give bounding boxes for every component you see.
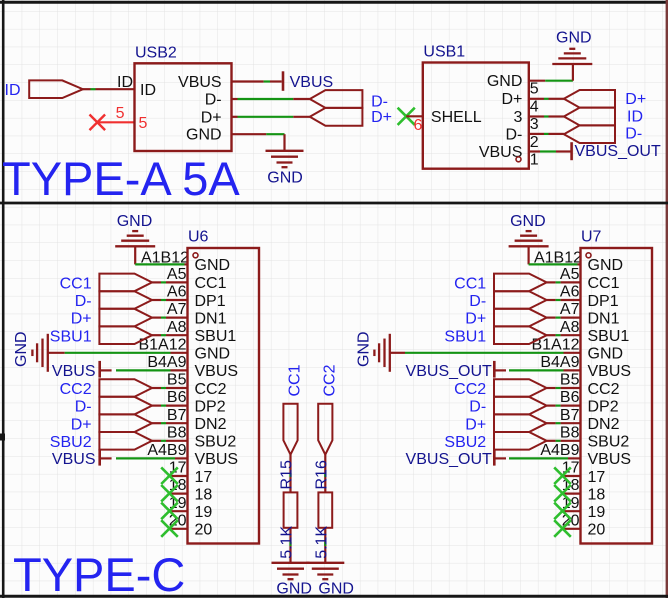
ground label GND (left U6) bbox=[13, 331, 30, 367]
net label ID bbox=[117, 74, 133, 91]
port label CC2 (U7 B-row) bbox=[454, 381, 486, 398]
port label SBU1 (U6 A-row) bbox=[50, 328, 92, 345]
svg-text:VBUS: VBUS bbox=[195, 363, 239, 380]
port D+ (U7 A-row) bbox=[494, 309, 547, 327]
pin number 5 (outside USB2) bbox=[116, 105, 125, 122]
U6 pin 18 stub bbox=[169, 493, 188, 495]
svg-text:A8: A8 bbox=[167, 319, 187, 336]
svg-text:VBUS: VBUS bbox=[588, 451, 632, 468]
svg-text:ID: ID bbox=[140, 82, 156, 99]
U7 pin name 19 bbox=[588, 504, 606, 521]
svg-text:SBU2: SBU2 bbox=[444, 434, 486, 451]
U7 pin number 17 bbox=[562, 460, 580, 477]
wire port to U6 A6 bbox=[152, 299, 188, 301]
wire GND to U6 pin A1B12 bbox=[135, 247, 187, 264]
svg-text:D+: D+ bbox=[371, 109, 392, 126]
wire U7 GND B1A12 bbox=[390, 352, 581, 354]
svg-text:TYPE-C: TYPE-C bbox=[13, 548, 185, 598]
U6 pin name DN2 bbox=[195, 416, 227, 433]
wire R16 to ground bbox=[324, 528, 326, 563]
U6 pin number A4B9 bbox=[147, 442, 186, 459]
wire USB1 ID pin3 bbox=[529, 115, 564, 117]
svg-text:DN1: DN1 bbox=[588, 310, 620, 327]
ground label GND (R15) bbox=[276, 581, 312, 598]
svg-text:A6: A6 bbox=[167, 284, 187, 301]
svg-text:A5: A5 bbox=[560, 266, 580, 283]
svg-text:GND: GND bbox=[510, 213, 546, 230]
port label D+ (U7 A-row) bbox=[465, 311, 486, 328]
svg-text:1: 1 bbox=[530, 152, 539, 169]
U7 pin number 20 bbox=[562, 512, 580, 529]
svg-text:SBU1: SBU1 bbox=[588, 328, 630, 345]
U7 pin name 17 bbox=[588, 469, 606, 486]
USB1 pin name VBUS bbox=[479, 144, 523, 161]
power label VBUS_OUT (U7 A4B9) bbox=[406, 451, 492, 468]
USB1 shell cross pin6 bbox=[398, 108, 415, 125]
U6 pin name 18 bbox=[195, 486, 213, 503]
svg-text:U7: U7 bbox=[581, 228, 602, 245]
svg-text:D-: D- bbox=[625, 126, 642, 143]
wire port to U6 B7 bbox=[152, 422, 188, 424]
svg-text:GND: GND bbox=[588, 346, 624, 363]
svg-text:A1B12: A1B12 bbox=[534, 249, 582, 266]
svg-text:A5: A5 bbox=[167, 266, 187, 283]
U7 pin name VBUS bbox=[588, 451, 632, 468]
power label VBUS (U6 B4A9) bbox=[52, 363, 96, 380]
svg-text:D-: D- bbox=[75, 399, 92, 416]
port SBU2 (U6 B-row) bbox=[99, 432, 152, 450]
svg-text:ID: ID bbox=[117, 74, 133, 91]
port label CC1 (U7 A-row) bbox=[454, 276, 486, 293]
svg-text:VBUS_OUT: VBUS_OUT bbox=[406, 363, 492, 380]
wire U6 GND B1A12 bbox=[48, 352, 188, 354]
U6 pin name CC1 bbox=[195, 275, 227, 292]
U7 pin name VBUS bbox=[588, 363, 632, 380]
wire port to U6 A5 bbox=[152, 281, 188, 283]
wire R15 to ground bbox=[289, 528, 291, 563]
svg-text:USB2: USB2 bbox=[135, 45, 177, 62]
svg-text:A7: A7 bbox=[167, 301, 187, 318]
USB1 pin name 3 bbox=[513, 109, 522, 126]
svg-text:R16: R16 bbox=[313, 460, 330, 489]
svg-text:SBU1: SBU1 bbox=[50, 328, 92, 345]
value 5.1K (R15) bbox=[279, 526, 296, 559]
U6 pin number A8 bbox=[167, 319, 187, 336]
port D- (USB1) bbox=[564, 125, 615, 143]
USB1 pin number 4 bbox=[530, 98, 539, 115]
ground symbol left of U7 (rotated) bbox=[374, 334, 389, 372]
power label VBUS bbox=[290, 74, 334, 91]
U6 pin name DP2 bbox=[195, 398, 226, 415]
ground label GND (USB2) bbox=[267, 169, 303, 186]
designator R16 bbox=[313, 460, 330, 489]
U7 pin name DP2 bbox=[588, 398, 619, 415]
U7 pin number B6 bbox=[560, 389, 580, 406]
svg-text:5.1K: 5.1K bbox=[313, 526, 330, 559]
svg-text:19: 19 bbox=[588, 504, 606, 521]
USB2 pin name VBUS bbox=[178, 74, 222, 91]
port label D+ (USB2) bbox=[371, 109, 392, 126]
wire ID port to USB2 bbox=[83, 88, 135, 90]
wire port to U7 B6 bbox=[547, 405, 581, 407]
connector U7 box bbox=[581, 248, 653, 544]
svg-text:TYPE-A 5A: TYPE-A 5A bbox=[2, 152, 240, 205]
svg-text:5.1K: 5.1K bbox=[279, 526, 296, 559]
svg-text:D-: D- bbox=[75, 293, 92, 310]
wire port to U6 A8 bbox=[152, 334, 188, 336]
U6 pin name DN1 bbox=[195, 310, 227, 327]
no-ERC cross U7 pin 20 bbox=[554, 520, 571, 537]
wire port to U7 A5 bbox=[547, 281, 581, 283]
USB2 pin name GND bbox=[186, 127, 222, 144]
port label ID (USB1) bbox=[627, 109, 643, 126]
svg-text:2: 2 bbox=[530, 134, 539, 151]
port D+ (USB2) bbox=[310, 108, 363, 126]
USB2 pin name D+ bbox=[201, 109, 222, 126]
svg-text:18: 18 bbox=[588, 486, 606, 503]
value 5.1K (R16) bbox=[313, 526, 330, 559]
U7 pin name CC1 bbox=[588, 275, 620, 292]
svg-text:GND: GND bbox=[556, 29, 592, 46]
port label D- (USB1) bbox=[625, 126, 642, 143]
U7 pin name DP1 bbox=[588, 293, 619, 310]
svg-text:20: 20 bbox=[588, 522, 606, 539]
U6 pin name GND bbox=[195, 257, 231, 274]
port label ID bbox=[5, 82, 21, 99]
USB1 pin name D- bbox=[506, 127, 523, 144]
ground symbol above USB1 (inverted) bbox=[552, 49, 592, 64]
U6 pin number A5 bbox=[167, 266, 187, 283]
U7 pin name 20 bbox=[588, 522, 606, 539]
ground label GND (R16) bbox=[318, 581, 354, 598]
wire port to U6 B8 bbox=[152, 440, 188, 442]
svg-text:5: 5 bbox=[116, 105, 125, 122]
no-ERC cross U6 pin 20 bbox=[161, 520, 178, 537]
wire U6 VBUS B4A9 bbox=[101, 369, 188, 371]
pin 6 wire USB1 bbox=[406, 115, 423, 117]
pin name 5 (inside USB2) bbox=[139, 115, 148, 132]
wire port to U6 B5 bbox=[152, 387, 188, 389]
U7 pin name DN1 bbox=[588, 310, 620, 327]
wire USB1 D+ pin4 bbox=[529, 98, 564, 100]
U6 pin name 19 bbox=[195, 504, 213, 521]
svg-text:VBUS: VBUS bbox=[290, 74, 334, 91]
wire port to U7 A8 bbox=[547, 334, 581, 336]
svg-text:VBUS: VBUS bbox=[52, 451, 96, 468]
port CC1 (vertical) bbox=[283, 404, 297, 455]
port CC2 (vertical) bbox=[318, 404, 332, 455]
svg-text:VBUS: VBUS bbox=[195, 451, 239, 468]
svg-text:GND: GND bbox=[487, 73, 523, 90]
U6 pin name VBUS bbox=[195, 363, 239, 380]
power port VBUS_OUT (bar) bbox=[570, 142, 573, 160]
power port bar VBUS (U6 B4A9) bbox=[98, 361, 101, 378]
svg-text:CC1: CC1 bbox=[588, 275, 620, 292]
svg-text:17: 17 bbox=[588, 469, 606, 486]
svg-text:A4B9: A4B9 bbox=[147, 442, 186, 459]
port label D- (U6 B-row) bbox=[75, 399, 92, 416]
svg-text:DN1: DN1 bbox=[195, 310, 227, 327]
port label SBU2 (U6 B-row) bbox=[50, 434, 92, 451]
svg-text:GND: GND bbox=[186, 127, 222, 144]
no-ERC cross U7 pin 17 bbox=[554, 467, 571, 484]
svg-text:SBU2: SBU2 bbox=[195, 434, 237, 451]
svg-text:GND: GND bbox=[318, 581, 354, 598]
U6 pin 17 stub bbox=[169, 475, 188, 477]
USB2 pin name ID bbox=[140, 82, 156, 99]
ground symbol left of U6 (rotated) bbox=[32, 334, 47, 372]
ground label GND (top U7) bbox=[510, 213, 546, 230]
svg-text:VBUS_OUT: VBUS_OUT bbox=[406, 451, 492, 468]
svg-text:A6: A6 bbox=[560, 284, 580, 301]
power label VBUS_OUT bbox=[575, 143, 661, 160]
svg-text:CC1: CC1 bbox=[454, 276, 486, 293]
svg-text:20: 20 bbox=[195, 522, 213, 539]
svg-text:CC1: CC1 bbox=[287, 364, 304, 396]
U7 pin number A7 bbox=[560, 301, 580, 318]
svg-text:GND: GND bbox=[195, 257, 231, 274]
svg-text:CC1: CC1 bbox=[60, 276, 92, 293]
ground label GND (top U6) bbox=[117, 213, 153, 230]
svg-text:B7: B7 bbox=[167, 407, 187, 424]
port label SBU1 (U7 A-row) bbox=[444, 328, 486, 345]
U7 pin 19 stub bbox=[562, 510, 581, 512]
USB1 pin name SHELL bbox=[431, 109, 482, 126]
svg-text:D+: D+ bbox=[465, 416, 486, 433]
svg-text:B8: B8 bbox=[167, 424, 187, 441]
wire U6 VBUS A4B9 bbox=[101, 457, 188, 459]
svg-text:B7: B7 bbox=[560, 407, 580, 424]
U6 pin number A6 bbox=[167, 284, 187, 301]
ground symbol above U7 (inverted) bbox=[509, 231, 549, 246]
pin 5 wire USB2 bbox=[97, 121, 134, 123]
wire USB1 D- pin2 bbox=[529, 133, 564, 135]
svg-text:CC2: CC2 bbox=[454, 381, 486, 398]
port ID (USB1) bbox=[564, 108, 615, 126]
ground label GND (left U7) bbox=[355, 331, 372, 367]
U7 pin name 18 bbox=[588, 486, 606, 503]
port label D+ (U6 B-row) bbox=[71, 416, 92, 433]
U7 pin number B7 bbox=[560, 407, 580, 424]
U7 pin number A6 bbox=[560, 284, 580, 301]
svg-text:CC2: CC2 bbox=[321, 364, 338, 396]
power label VBUS (U6 A4B9) bbox=[52, 451, 96, 468]
port label D- (USB2) bbox=[371, 93, 388, 110]
svg-text:GND: GND bbox=[276, 581, 312, 598]
svg-text:DP1: DP1 bbox=[195, 293, 226, 310]
no-ERC cross U6 pin 19 bbox=[161, 503, 178, 520]
port label CC2 (U6 B-row) bbox=[60, 381, 92, 398]
port label D- (U6 A-row) bbox=[75, 293, 92, 310]
U6 pin name SBU1 bbox=[195, 328, 237, 345]
no-ERC cross U6 pin 18 bbox=[161, 485, 178, 502]
U7 pin number B8 bbox=[560, 424, 580, 441]
port label D+ (U6 A-row) bbox=[71, 311, 92, 328]
port CC2 (U7 B-row) bbox=[494, 379, 547, 397]
svg-text:D-: D- bbox=[205, 92, 222, 109]
port ID (left) bbox=[29, 80, 83, 98]
section title TYPE-C bbox=[13, 548, 185, 598]
designator USB2 bbox=[135, 45, 177, 62]
svg-text:B4A9: B4A9 bbox=[540, 354, 579, 371]
svg-text:GND: GND bbox=[13, 331, 30, 367]
no-ERC cross U6 pin 17 bbox=[161, 467, 178, 484]
U6 pin name 20 bbox=[195, 522, 213, 539]
wire USB2 D- to port bbox=[232, 98, 310, 100]
svg-text:CC1: CC1 bbox=[195, 275, 227, 292]
svg-text:VBUS: VBUS bbox=[588, 363, 632, 380]
port D+ (U7 B-row) bbox=[494, 414, 547, 432]
connector USB2 box bbox=[135, 63, 232, 151]
svg-text:A8: A8 bbox=[560, 319, 580, 336]
power port bar VBUS_OUT (U7 A4B9) bbox=[493, 449, 496, 466]
USB1 pin number 3 bbox=[530, 116, 539, 133]
wire USB2 D+ to port bbox=[232, 116, 310, 118]
U7 pin number 19 bbox=[562, 495, 580, 512]
U7 pin name GND bbox=[588, 346, 624, 363]
svg-text:A7: A7 bbox=[560, 301, 580, 318]
svg-text:SBU2: SBU2 bbox=[588, 434, 630, 451]
port CC1 (U7 A-row) bbox=[494, 274, 547, 292]
svg-text:D+: D+ bbox=[465, 311, 486, 328]
port D+ (U6 A-row) bbox=[99, 309, 152, 327]
wire GND to U7 pin A1B12 bbox=[529, 247, 581, 264]
svg-text:3: 3 bbox=[530, 116, 539, 133]
U6 pin 19 stub bbox=[169, 510, 188, 512]
ground symbol below R15 bbox=[272, 563, 310, 579]
section title TYPE-A 5A bbox=[2, 152, 240, 205]
svg-text:D+: D+ bbox=[71, 416, 92, 433]
wire port to U7 A6 bbox=[547, 299, 581, 301]
resistor R15 body bbox=[284, 492, 298, 527]
svg-text:6: 6 bbox=[414, 117, 423, 134]
USB1 pin1 dot circle bbox=[516, 157, 521, 162]
svg-text:ID: ID bbox=[5, 82, 21, 99]
port label CC1 (U6 A-row) bbox=[60, 276, 92, 293]
svg-text:B6: B6 bbox=[560, 389, 580, 406]
svg-text:18: 18 bbox=[195, 486, 213, 503]
svg-text:VBUS_OUT: VBUS_OUT bbox=[575, 143, 661, 160]
U6 pin name GND bbox=[195, 346, 231, 363]
svg-text:U6: U6 bbox=[188, 228, 209, 245]
power port bar VBUS_OUT (U7 B4A9) bbox=[493, 361, 496, 378]
svg-text:B4A9: B4A9 bbox=[147, 354, 186, 371]
svg-text:D-: D- bbox=[506, 127, 523, 144]
svg-text:D-: D- bbox=[469, 293, 486, 310]
U6 pin number 20 bbox=[169, 512, 187, 529]
svg-text:GND: GND bbox=[355, 331, 372, 367]
svg-text:D-: D- bbox=[469, 399, 486, 416]
U6 pin number B4A9 bbox=[147, 354, 186, 371]
wire USB2 GND to ground bbox=[232, 134, 285, 150]
ground label GND (USB1) bbox=[556, 29, 592, 46]
svg-text:CC2: CC2 bbox=[588, 381, 620, 398]
svg-text:A1B12: A1B12 bbox=[141, 249, 189, 266]
port SBU1 (U7 A-row) bbox=[494, 326, 547, 344]
svg-text:SBU2: SBU2 bbox=[50, 434, 92, 451]
U6 pin 20 stub bbox=[169, 528, 188, 530]
U6 pin name 17 bbox=[195, 469, 213, 486]
connector USB1 box bbox=[423, 63, 529, 169]
svg-text:DP2: DP2 bbox=[195, 398, 226, 415]
port label D- (U7 A-row) bbox=[469, 293, 486, 310]
wire U7 VBUS_OUT A4B9 bbox=[496, 457, 581, 459]
U7 pin name SBU2 bbox=[588, 434, 630, 451]
port CC2 (U6 B-row) bbox=[99, 379, 152, 397]
USB1 pin number 2 bbox=[530, 134, 539, 151]
U6 pin number B5 bbox=[167, 372, 187, 389]
svg-text:SBU1: SBU1 bbox=[195, 328, 237, 345]
designator R15 bbox=[279, 460, 296, 489]
U6 pin number B6 bbox=[167, 389, 187, 406]
U7 pin name CC2 bbox=[588, 381, 620, 398]
port D+ (USB1) bbox=[564, 90, 615, 108]
U6 pin name SBU2 bbox=[195, 434, 237, 451]
svg-text:ID: ID bbox=[627, 109, 643, 126]
U6 pin name DP1 bbox=[195, 293, 226, 310]
U6 pin number A1B12 bbox=[141, 249, 189, 266]
U7 pin name SBU1 bbox=[588, 328, 630, 345]
U6 pin number B1A12 bbox=[138, 336, 186, 353]
wire port to U7 A7 bbox=[547, 317, 581, 319]
U7 pin number B4A9 bbox=[540, 354, 579, 371]
USB1 pin name D+ bbox=[501, 91, 522, 108]
U6 pin name CC2 bbox=[195, 381, 227, 398]
U6 pin number B8 bbox=[167, 424, 187, 441]
power label VBUS_OUT (U7 B4A9) bbox=[406, 363, 492, 380]
connector U6 box bbox=[188, 248, 260, 544]
svg-text:B8: B8 bbox=[560, 424, 580, 441]
svg-text:GND: GND bbox=[588, 257, 624, 274]
U7 pin 18 stub bbox=[562, 493, 581, 495]
svg-text:D+: D+ bbox=[71, 311, 92, 328]
svg-text:CC2: CC2 bbox=[195, 381, 227, 398]
designator USB1 bbox=[423, 44, 465, 61]
port D+ (U6 B-row) bbox=[99, 414, 152, 432]
svg-text:D+: D+ bbox=[201, 109, 222, 126]
U7 pin number B5 bbox=[560, 372, 580, 389]
svg-text:B5: B5 bbox=[167, 372, 187, 389]
wire port to U6 B6 bbox=[152, 405, 188, 407]
svg-text:GND: GND bbox=[195, 346, 231, 363]
svg-text:5: 5 bbox=[530, 81, 539, 98]
svg-text:17: 17 bbox=[195, 469, 213, 486]
svg-text:DP1: DP1 bbox=[588, 293, 619, 310]
designator U7 bbox=[581, 228, 602, 245]
power port bar VBUS (U6 A4B9) bbox=[98, 449, 101, 466]
ground symbol below USB2 bbox=[266, 151, 304, 167]
svg-text:USB1: USB1 bbox=[423, 44, 465, 61]
power port VBUS (bar) bbox=[282, 71, 285, 91]
port CC1 (U6 A-row) bbox=[99, 274, 152, 292]
U7 pin1 dot circle bbox=[586, 253, 591, 258]
U6 pin number B7 bbox=[167, 407, 187, 424]
port SBU1 (U6 A-row) bbox=[99, 326, 152, 344]
svg-text:CC2: CC2 bbox=[60, 381, 92, 398]
ground symbol below R16 bbox=[306, 563, 344, 579]
svg-text:VBUS: VBUS bbox=[52, 363, 96, 380]
wire USB1 VBUS pin1 bbox=[529, 150, 572, 152]
no-ERC cross U7 pin 19 bbox=[554, 503, 571, 520]
resistor R16 body bbox=[318, 492, 332, 527]
svg-text:D+: D+ bbox=[625, 91, 646, 108]
wire USB1 GND pin5 bbox=[529, 65, 573, 81]
port D- (U7 A-row) bbox=[494, 291, 547, 309]
U7 pin number A4B9 bbox=[540, 442, 579, 459]
U7 pin number A5 bbox=[560, 266, 580, 283]
svg-text:R15: R15 bbox=[279, 460, 296, 489]
no-ERC cross pin5 USB2 bbox=[90, 115, 106, 131]
